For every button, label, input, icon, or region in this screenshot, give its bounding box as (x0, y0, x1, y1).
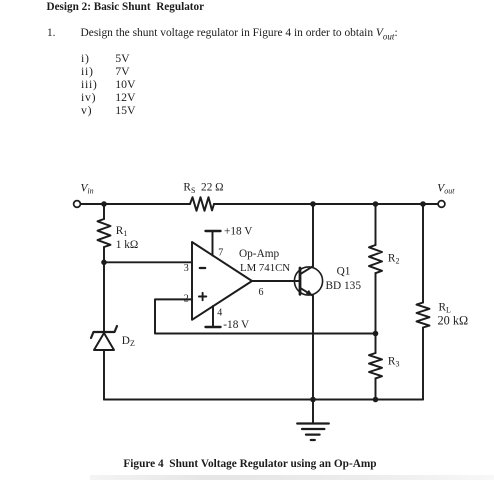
node R3 bottom rail (373, 397, 379, 403)
scan artifact band at bottom edge (90, 475, 494, 480)
ground (297, 400, 329, 441)
wire R1 top (103, 204, 105, 219)
noninverting input marker (199, 293, 206, 300)
node collector/top rail (310, 201, 316, 207)
list item v) 15V (81, 105, 92, 117)
svg-text:2: 2 (184, 294, 189, 305)
list item ii) 7V (81, 66, 94, 78)
list item iv) 12V (81, 92, 96, 104)
node feedback/R2/R3 junction (373, 331, 379, 337)
node Vin/R1 junction (101, 201, 107, 207)
caption: Figure 4 Shunt Voltage Regulator using an Op-Amp (123, 459, 376, 470)
node RL top (420, 201, 426, 207)
svg-text:BD 135: BD 135 (326, 280, 362, 292)
resistor R1 (98, 219, 111, 247)
inverting input marker (200, 267, 205, 269)
wire Q1 collector (312, 204, 314, 266)
terminal Vin (74, 201, 81, 208)
list item i) 5V (81, 53, 90, 65)
node R2 top (373, 201, 379, 207)
wire top rail left (80, 203, 190, 205)
op-amp pin 7 supply lead (206, 231, 221, 256)
svg-text:6: 6 (259, 287, 264, 298)
svg-text:DZ: DZ (122, 335, 135, 348)
resistor R3 (369, 353, 382, 378)
svg-text:+18 V: +18 V (224, 226, 253, 238)
wire pin 2 stub (155, 299, 376, 333)
wire R3 top (375, 334, 377, 354)
svg-text:1 kΩ: 1 kΩ (116, 239, 139, 251)
op-amp U1 triangle (192, 242, 252, 320)
wire Q1 emitter (312, 296, 314, 400)
resistor R2 (369, 245, 382, 273)
heading: Design 2: Basic Shunt Regulator (47, 2, 205, 13)
node R1/DZ/pin3 junction (101, 260, 107, 266)
svg-text:3: 3 (184, 263, 189, 274)
wire RL bottom (422, 328, 424, 400)
svg-text:-18 V: -18 V (223, 319, 250, 331)
resistor RS (190, 197, 214, 211)
svg-text:7: 7 (218, 248, 223, 259)
wire RL top (422, 204, 424, 303)
wire R2 bottom (375, 273, 377, 334)
terminal Vout (438, 201, 445, 208)
svg-text:20 kΩ: 20 kΩ (438, 314, 469, 328)
list item iii) 10V (81, 79, 98, 91)
svg-text:LM 741CN: LM 741CN (240, 262, 290, 274)
wire R3 bottom (375, 378, 377, 399)
op-amp pin 4 supply lead (206, 306, 221, 327)
problem statement line 1 (47, 28, 55, 39)
wire bottom rail (104, 399, 423, 401)
wire top rail right (214, 203, 438, 205)
node emitter bottom rail (310, 397, 316, 403)
svg-text:RS 22 Ω: RS 22 Ω (183, 182, 223, 195)
svg-text:Vout: Vout (437, 182, 455, 195)
svg-text:R3: R3 (388, 356, 400, 369)
svg-text:Q1: Q1 (337, 266, 351, 278)
wire op-amp output pin 6 to Q1 base (252, 280, 300, 282)
wire junction to op-amp pin 3 (104, 261, 192, 263)
transistor Q1 (294, 266, 322, 296)
wire R1 bottom (103, 247, 105, 262)
wire DZ bottom (103, 350, 105, 400)
svg-text:4: 4 (217, 308, 222, 319)
wire R2 top (375, 204, 377, 245)
svg-text:Vin: Vin (81, 182, 94, 195)
svg-text:Op-Amp: Op-Amp (239, 248, 280, 260)
zener diode DZ (91, 326, 117, 350)
svg-text:R1: R1 (116, 225, 128, 238)
svg-text:R2: R2 (388, 253, 400, 266)
wire junction down to zener (103, 262, 105, 332)
resistor RL (417, 303, 430, 328)
